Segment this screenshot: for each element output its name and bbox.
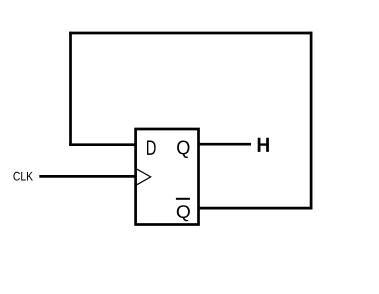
wire: feedback right vertical	[310, 32, 313, 210]
pin label Q-bar	[177, 205, 190, 221]
wire: feedback top horizontal	[69, 32, 312, 35]
clock edge-trigger triangle	[137, 169, 151, 185]
D flip-flop U1 body	[136, 129, 199, 225]
pin label Q	[177, 141, 189, 159]
wire: feedback left vertical	[69, 32, 72, 146]
wire: CLK input	[39, 175, 136, 178]
wire: Q-bar output to feedback	[198, 207, 313, 210]
node label H	[258, 138, 269, 152]
wire: D input	[69, 143, 136, 146]
wire: Q output	[198, 143, 251, 146]
Q-bar overline	[176, 198, 190, 200]
label CLK	[13, 172, 33, 181]
pin label D	[147, 141, 156, 155]
